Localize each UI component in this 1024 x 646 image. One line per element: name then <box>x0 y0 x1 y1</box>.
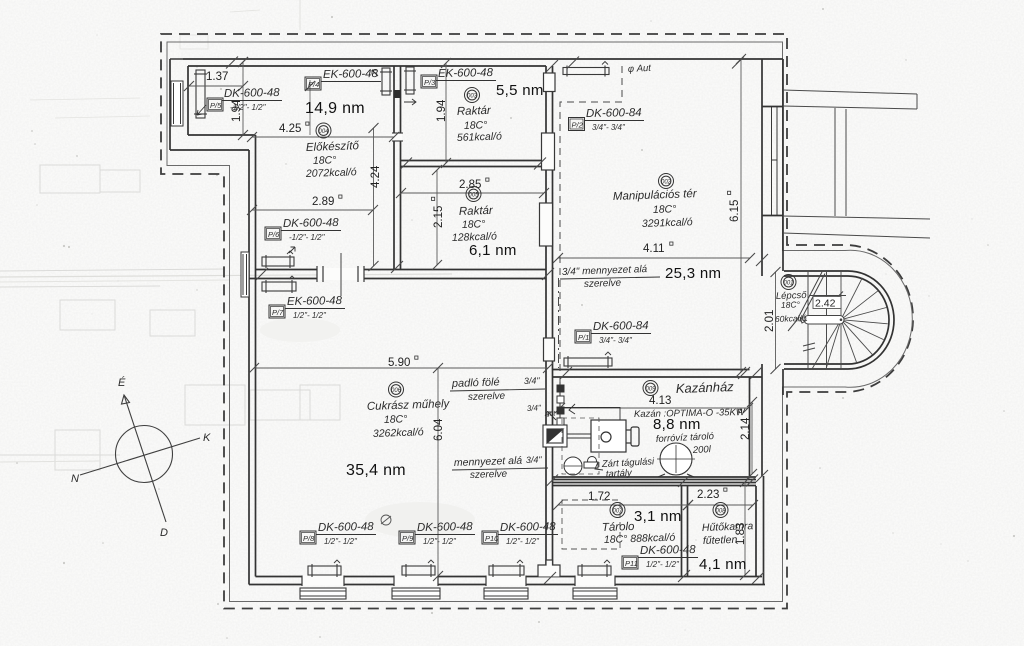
svg-text:2.85: 2.85 <box>459 179 481 191</box>
right exterior wall upper (thick) <box>782 59 784 271</box>
svg-text:561kcal/ó: 561kcal/ó <box>457 130 502 144</box>
svg-text:1.72: 1.72 <box>588 491 610 503</box>
svg-text:4.24: 4.24 <box>370 165 382 188</box>
terrace lower edge lines <box>783 216 930 238</box>
svg-text:K: K <box>203 432 211 444</box>
stair break symbol <box>803 343 815 351</box>
svg-text:3/4": 3/4" <box>527 403 543 413</box>
svg-text:001: 001 <box>783 280 793 286</box>
label P/6 <box>265 227 281 240</box>
door tick top-left wall <box>170 58 183 60</box>
terrace middle wall <box>835 108 846 216</box>
svg-text:EK-600-48: EK-600-48 <box>287 295 343 308</box>
svg-text:6.15: 6.15 <box>729 200 741 222</box>
svg-text:EK-600-48: EK-600-48 <box>438 67 494 80</box>
room 003 circle <box>465 88 480 103</box>
svg-text:DK-600-84: DK-600-84 <box>586 107 642 120</box>
right wall hutokamra <box>763 476 765 585</box>
tarolo dashed storage outline <box>562 500 620 549</box>
supply pipe to boiler <box>564 404 620 438</box>
svg-text:DK-600-48: DK-600-48 <box>318 521 374 534</box>
step wall left <box>188 134 256 136</box>
svg-text:18C°: 18C° <box>462 218 486 231</box>
window bay 1 <box>300 588 346 599</box>
dim line 1.72 <box>553 500 693 510</box>
window in right exterior wall <box>772 107 778 215</box>
svg-text:1/2"- 1/2": 1/2"- 1/2" <box>324 537 358 546</box>
svg-text:2.42: 2.42 <box>815 298 836 310</box>
svg-text:008: 008 <box>715 508 726 514</box>
bay wall outer arc <box>784 271 894 369</box>
label P/9 <box>399 531 415 544</box>
svg-text:szerelve: szerelve <box>584 278 622 290</box>
radiator arrows <box>197 70 416 253</box>
heating riser with valves <box>557 382 564 438</box>
dim line 2.01 <box>771 267 781 374</box>
svg-text:P/6: P/6 <box>268 230 280 239</box>
svg-text:P/5: P/5 <box>210 101 222 110</box>
left exterior wall upper <box>169 59 171 150</box>
interior wall between rooms 003 and 005 <box>401 160 547 162</box>
wall between manipulacios ter and kazanhaz <box>553 369 750 371</box>
right wall below bay (kazanhaz) <box>761 364 763 476</box>
svg-text:1.94: 1.94 <box>436 99 448 122</box>
central wall pillar 2 <box>542 133 555 170</box>
svg-text:P10: P10 <box>485 534 499 543</box>
stair tread verticals <box>808 272 827 369</box>
svg-text:002: 002 <box>661 179 672 185</box>
svg-text:Tárolo: Tárolo <box>602 521 636 534</box>
label P/7 <box>269 305 285 318</box>
boiler OPTIMA <box>591 420 639 452</box>
svg-text:DK-600-84: DK-600-84 <box>593 320 649 333</box>
room 008 hutokamra <box>713 503 728 518</box>
svg-text:1/2"- 1/2": 1/2"- 1/2" <box>646 560 680 569</box>
svg-text:003: 003 <box>467 93 478 99</box>
svg-text:-1/2"- 1/2": -1/2"- 1/2" <box>230 103 267 112</box>
dim 2.42 <box>809 295 846 297</box>
svg-text:3,1 nm: 3,1 nm <box>634 508 682 525</box>
dim line 1.94 left <box>238 57 248 140</box>
radiator P/5 vertical <box>194 70 207 118</box>
dim line 1.37 <box>184 81 248 91</box>
svg-text:2072kcal/ó: 2072kcal/ó <box>305 166 357 180</box>
door leaf line <box>340 253 342 296</box>
label P/11 <box>622 556 638 569</box>
radiator P/6 upper <box>262 251 294 268</box>
dim line 4.13 <box>555 403 753 413</box>
svg-text:Előkészítő: Előkészítő <box>306 140 360 154</box>
window bay 3 <box>484 588 528 599</box>
bay wall inner arc <box>784 276 889 364</box>
central wall pillar 4 <box>544 338 555 361</box>
pipe arrows kazanhaz <box>548 412 603 470</box>
svg-text:200l: 200l <box>692 444 712 456</box>
construction line x310 <box>309 80 311 135</box>
radiator manipulacios top <box>563 62 609 77</box>
dim line 4.24 <box>369 123 379 271</box>
svg-text:EK-600-48: EK-600-48 <box>323 68 379 81</box>
svg-text:5.90: 5.90 <box>388 357 410 369</box>
dim line 1.94 room003 <box>441 58 451 168</box>
svg-text:DK-600-48: DK-600-48 <box>283 217 339 230</box>
room 005 circle <box>466 187 481 202</box>
svg-text:009: 009 <box>645 386 656 392</box>
svg-text:3262kcal/ó: 3262kcal/ó <box>373 426 424 440</box>
dim line 2.15 <box>432 165 442 270</box>
radiator P/4 vertical <box>380 68 392 95</box>
dim line 1.83 <box>740 477 750 580</box>
construction tick top wall <box>238 57 248 67</box>
svg-text:3/4"- 3/4": 3/4"- 3/4" <box>599 336 633 345</box>
label P/1 <box>575 330 591 343</box>
svg-text:-1/2"- 1/2": -1/2"- 1/2" <box>289 233 326 242</box>
radiator P/3 vertical <box>404 67 416 94</box>
radiator manipulacios at kazanhaz wall <box>564 352 612 368</box>
room 006 circle <box>389 382 404 397</box>
svg-text:N: N <box>71 473 79 485</box>
svg-text:25,3 nm: 25,3 nm <box>665 265 721 282</box>
svg-text:18C°: 18C° <box>313 154 337 167</box>
svg-text:P/8: P/8 <box>303 534 315 543</box>
interior wall above cukrasz workshop <box>256 269 547 271</box>
svg-text:P/2: P/2 <box>572 121 584 130</box>
svg-text:mennyezet alá: mennyezet alá <box>454 455 523 469</box>
svg-text:1/2"- 1/2": 1/2"- 1/2" <box>423 537 457 546</box>
svg-text:3/4": 3/4" <box>524 375 541 386</box>
dim line 5.90 <box>249 363 553 373</box>
central wall pillar 1 <box>544 73 556 92</box>
dim line 2.14 <box>747 397 757 479</box>
radiator P/8 <box>308 560 341 577</box>
svg-text:É: É <box>118 376 126 389</box>
svg-text:2.14: 2.14 <box>740 417 752 440</box>
heat exchanger box <box>543 425 567 447</box>
wall between tarolo and hutokamra <box>681 486 683 577</box>
dash-dot riser line <box>558 278 560 368</box>
radiator P/6 lower <box>262 276 296 293</box>
svg-text:18C°: 18C° <box>781 299 801 310</box>
svg-text:60kcal/ó: 60kcal/ó <box>775 313 807 324</box>
svg-text:P/9: P/9 <box>402 534 414 543</box>
room 009 kazanhaz <box>643 381 658 396</box>
svg-text:Kazánház: Kazánház <box>676 379 735 396</box>
window in upper left wall <box>171 81 183 126</box>
svg-text:007: 007 <box>612 508 623 514</box>
interior wall between room004 and rooms 003/005 <box>393 66 395 270</box>
room 001 lepcso <box>781 275 796 290</box>
bottom wall window opening 4 <box>575 576 615 586</box>
label P/4 <box>305 77 321 90</box>
property boundary dashed line <box>161 34 913 609</box>
svg-text:6,1 nm: 6,1 nm <box>469 242 517 259</box>
svg-text:P/3: P/3 <box>424 78 436 87</box>
svg-text:18C°: 18C° <box>653 203 677 216</box>
dim line 2.23 <box>683 500 758 510</box>
label P/10 <box>482 531 498 544</box>
svg-text:P/1: P/1 <box>578 333 589 342</box>
bottom exterior wall <box>249 584 765 586</box>
label P/3 <box>421 75 437 88</box>
svg-text:004: 004 <box>318 129 329 135</box>
svg-text:fűtetlen: fűtetlen <box>703 534 738 547</box>
svg-text:128kcal/ó: 128kcal/ó <box>452 230 497 244</box>
small circle mark cukrasz <box>381 515 391 525</box>
svg-text:Raktár: Raktár <box>459 205 494 218</box>
faint streaks left margin <box>0 274 452 277</box>
dim line 2.85 <box>396 188 549 198</box>
right wall window sills <box>762 106 783 108</box>
svg-text:szerelve: szerelve <box>470 469 508 481</box>
dim line 6.04 <box>433 363 443 581</box>
svg-text:5,5 nm: 5,5 nm <box>496 82 544 99</box>
room 004 circle <box>316 123 331 138</box>
bottom wall window opening 1 <box>302 576 344 586</box>
svg-text:Raktár: Raktár <box>457 105 492 118</box>
svg-text:3/4": 3/4" <box>526 454 543 465</box>
wall junction ticks <box>226 57 768 585</box>
svg-text:2.23: 2.23 <box>697 489 719 501</box>
property boundary inner solid line <box>167 42 912 602</box>
window in left wall at room004 bottom <box>241 252 249 297</box>
svg-text:P11: P11 <box>625 559 638 568</box>
bottom wall window opening 3 <box>486 576 526 586</box>
svg-text:006: 006 <box>391 388 402 394</box>
svg-text:18C°: 18C° <box>384 413 408 426</box>
svg-text:D: D <box>160 527 168 539</box>
svg-text:4.11: 4.11 <box>643 243 665 255</box>
svg-text:8,8 nm: 8,8 nm <box>653 416 701 433</box>
svg-text:Hűtőkamra: Hűtőkamra <box>702 520 754 534</box>
label P/2 <box>569 118 585 131</box>
expansion tank pump <box>564 457 598 476</box>
window bay 2 <box>392 588 440 599</box>
svg-text:4.13: 4.13 <box>649 395 671 407</box>
radiator P/11 in tarolo <box>578 560 611 577</box>
radiator P/10 <box>489 560 524 577</box>
top exterior wall <box>183 58 783 60</box>
svg-text:P/7: P/7 <box>272 308 284 317</box>
dashed pipe from top radiator <box>560 66 622 390</box>
svg-text:szerelve: szerelve <box>468 391 506 403</box>
compass rose <box>80 395 200 522</box>
dark wall segment <box>394 90 401 98</box>
svg-text:tartály: tartály <box>606 468 634 480</box>
stair up ramp double line <box>788 272 825 331</box>
room 007 tarolo <box>610 503 625 518</box>
svg-text:1.37: 1.37 <box>206 71 228 83</box>
svg-text:DK-600-48: DK-600-48 <box>500 521 556 534</box>
svg-text:DK-600-48: DK-600-48 <box>224 87 280 100</box>
bottom pier at wall junction <box>538 560 560 577</box>
svg-text:005: 005 <box>468 192 479 198</box>
wall between kazanhaz and tarolo row <box>553 476 757 478</box>
stair treads fan <box>812 272 888 369</box>
svg-text:DK-600-48: DK-600-48 <box>640 544 696 557</box>
svg-text:3/4"- 3/4": 3/4"- 3/4" <box>592 123 626 132</box>
label P/8 <box>300 531 316 544</box>
radiator P/9 <box>402 560 435 577</box>
stair newel pill <box>804 316 844 325</box>
left exterior wall lower <box>248 150 250 585</box>
central wall pillar 3 <box>540 203 553 246</box>
dim line 4.11 <box>553 253 755 263</box>
svg-text:DK-600-48: DK-600-48 <box>417 521 473 534</box>
svg-text:2.15: 2.15 <box>433 206 445 228</box>
hot water tank <box>657 443 695 477</box>
svg-text:14,9 nm: 14,9 nm <box>305 100 365 117</box>
svg-text:1/2"- 1/2": 1/2"- 1/2" <box>293 311 327 320</box>
door opening in wall 004/005 <box>392 133 402 141</box>
terrace upper edge lines <box>783 90 917 109</box>
ghost bleed-through left margin <box>0 165 340 470</box>
label P/5 <box>207 98 223 111</box>
room 002 circle <box>659 174 674 189</box>
svg-text:P/4: P/4 <box>308 80 319 89</box>
svg-text:padló fölé: padló fölé <box>451 376 500 390</box>
door opening between room 004 and cukrasz <box>317 268 364 280</box>
central vertical wall <box>545 66 547 577</box>
window bay 4 <box>573 588 617 599</box>
svg-text:4.25: 4.25 <box>279 123 301 135</box>
dim line 4.25 <box>247 132 399 142</box>
svg-text:φ Aut: φ Aut <box>628 63 652 75</box>
dim line 6.15 <box>736 54 746 377</box>
dashed equipment outline <box>562 418 599 474</box>
svg-text:35,4 nm: 35,4 nm <box>346 462 406 479</box>
scan noise background <box>0 0 1 1</box>
svg-text:1/2"- 1/2": 1/2"- 1/2" <box>506 537 540 546</box>
dim line 2.89 <box>247 205 378 215</box>
svg-text:4,1 nm: 4,1 nm <box>699 556 747 573</box>
svg-text:2.89: 2.89 <box>312 196 334 208</box>
svg-text:3291kcal/ó: 3291kcal/ó <box>642 216 693 230</box>
svg-text:6.04: 6.04 <box>433 418 445 441</box>
bottom wall window opening 2 <box>394 576 438 586</box>
